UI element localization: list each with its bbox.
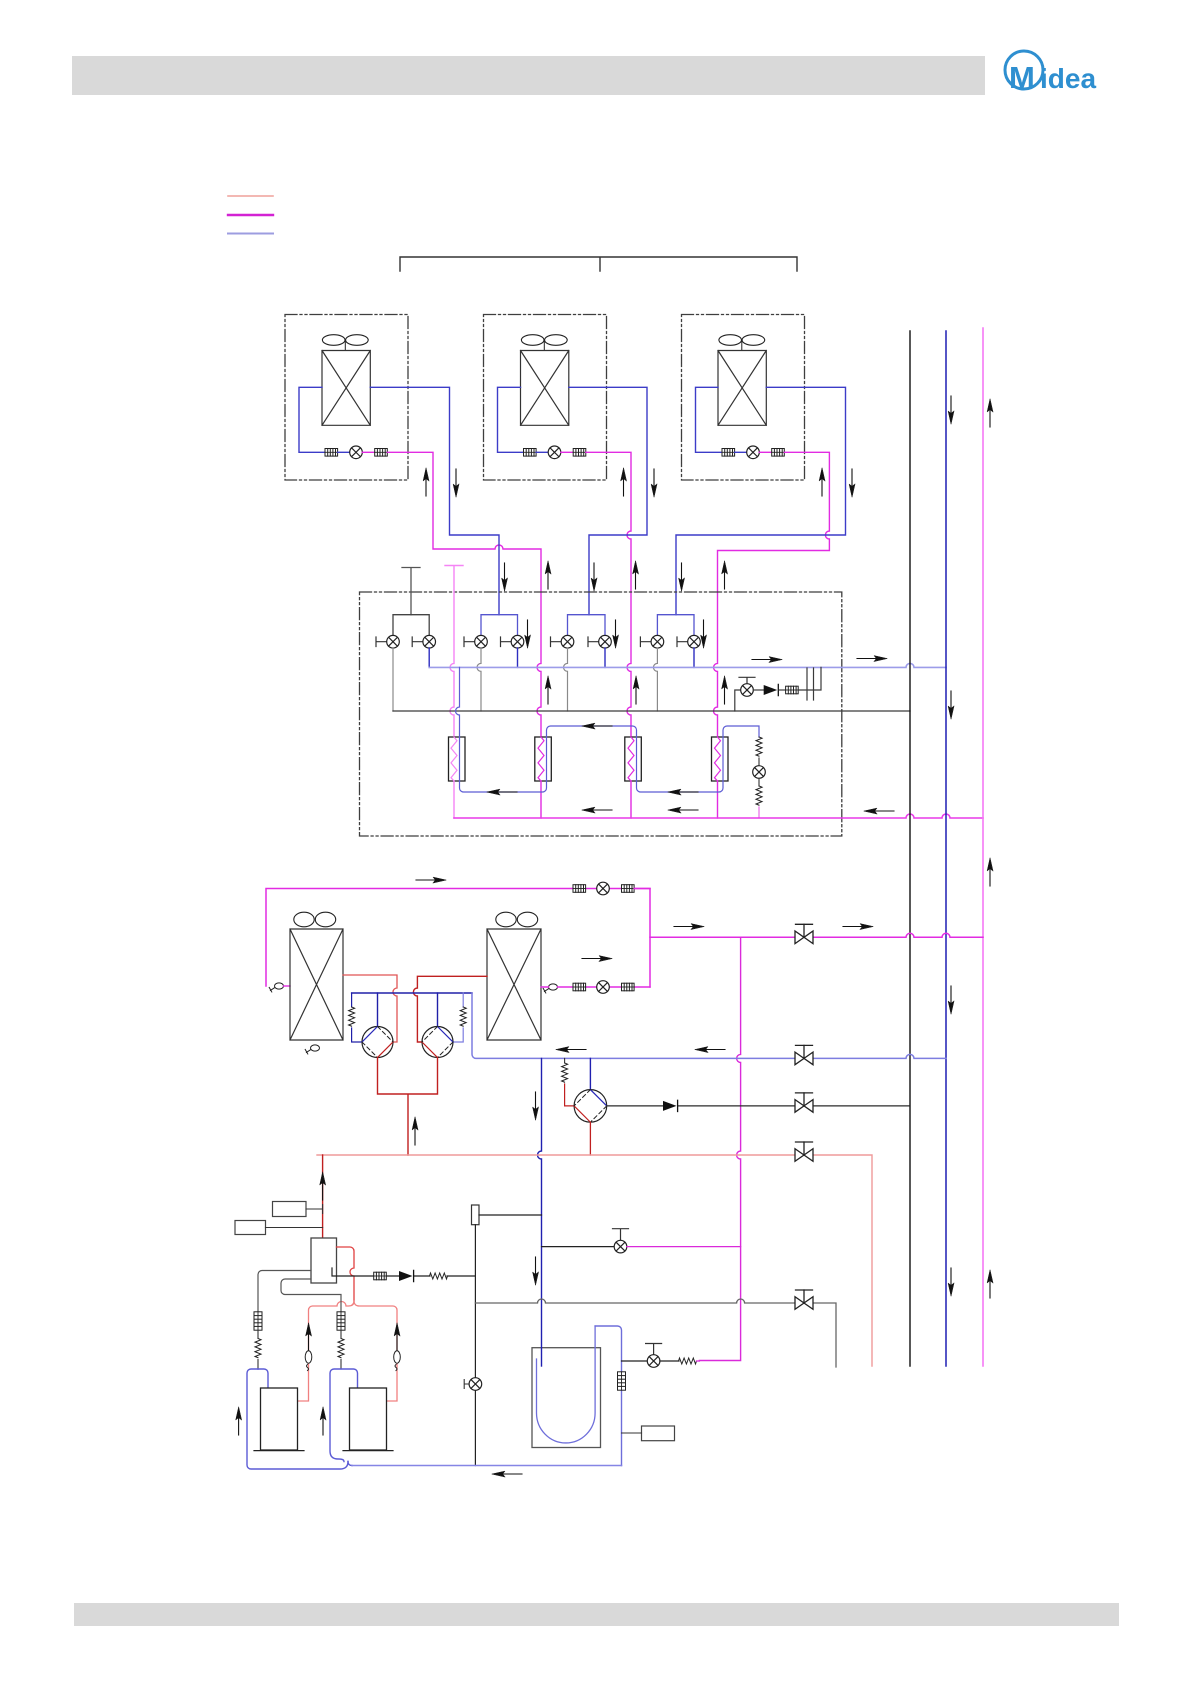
legend line: high pressure liquid (red) (228, 195, 273, 197)
pair1 left solenoid valve (387, 635, 400, 648)
pair3 right drop (blue) (604, 648, 606, 667)
pair4 left solenoid valve (651, 635, 664, 648)
injection coil (679, 1358, 697, 1364)
unit3 fan stem (741, 341, 743, 351)
unit3 arrows (819, 468, 825, 496)
crankcase line A (gray) (258, 1271, 311, 1312)
comp1 suction drop (377, 993, 379, 1027)
subcooler EXV (753, 766, 766, 779)
HR-B line filter A (573, 983, 586, 991)
branch arrows (674, 924, 704, 930)
subcool outlet HX4 to EXV drop (723, 726, 759, 737)
pair2 down arrow (525, 620, 531, 648)
pair2 right solenoid valve (511, 635, 524, 648)
pair3 down arrow (613, 620, 619, 648)
unit3 heat exchanger (718, 351, 766, 426)
accumulator feed drop (blue) (538, 1058, 542, 1366)
unit2 fan right (545, 335, 568, 346)
valve pair 1 header U (393, 615, 429, 636)
unit3 fan right (742, 335, 765, 346)
balance pipe solenoid valve (469, 1378, 482, 1391)
unit1 fan left (322, 335, 345, 346)
coil on drop A (257, 1330, 259, 1338)
pair1 right solenoid valve (423, 635, 436, 648)
HX3 liquid drop (630, 781, 632, 818)
return arrow (492, 1471, 522, 1477)
accumulator inlet drop (blue, into shell) (541, 1348, 543, 1366)
sight glass 2 (394, 1351, 401, 1371)
subcool EXV coil lower (756, 786, 762, 805)
coil on drop B (340, 1330, 342, 1338)
balance pipe valve lead (464, 1380, 469, 1389)
top line filter B (622, 885, 635, 893)
4-way valve (574, 1090, 607, 1123)
wire filter1-EXV (536, 451, 548, 453)
filter on drop B (337, 1312, 345, 1330)
pair1 valve left lead (376, 637, 387, 647)
high-pressure gas line (black) (393, 710, 910, 712)
equalize shut-off valve (795, 1290, 813, 1309)
inter-unit flow arrows (502, 563, 508, 591)
pair4 left drop (gray) (653, 648, 657, 711)
HX1 refrigerant coil (pink) (451, 737, 457, 781)
unit3 filter 1 (722, 449, 735, 457)
wire EXV-filter2 (magenta) (362, 451, 374, 453)
compressor 2 shell loop (blue) (330, 1369, 358, 1462)
unit2 enclosure (484, 315, 607, 481)
low-pressure shut-off valve (795, 1045, 813, 1064)
outlet filter (618, 1372, 626, 1390)
capped stub pipe (gray) (402, 568, 420, 615)
wire valve to coil (660, 1360, 679, 1362)
injection solenoid valve (647, 1355, 660, 1368)
HX1 liquid drop to liquid header (453, 781, 455, 818)
valve pair 3 header U (568, 615, 606, 636)
compressor discharge manifold (red) (378, 1058, 438, 1156)
compressor 2 (422, 1027, 453, 1058)
liquid header (magenta) (454, 814, 983, 818)
magenta riser arrows in box (545, 676, 551, 704)
oil return coil (430, 1273, 448, 1279)
HR-A condensing line (red) (343, 975, 397, 1042)
HR-B line filter B (622, 983, 635, 991)
HR gas shut-off valve (795, 924, 813, 943)
unit1 filter 2 (375, 449, 388, 457)
4-way valve to oil line (red) (589, 1122, 591, 1155)
subcool HX3 shell (625, 737, 642, 781)
sensor capsule on oil balance line (472, 1205, 480, 1225)
valve pair 2 header U (481, 615, 518, 636)
capped stub pipe (pink) (445, 566, 463, 738)
bypass solenoid valve (614, 1240, 627, 1253)
4-way valve suction drop (589, 1058, 591, 1089)
oil separator feed (red) (322, 1155, 324, 1238)
HX2 subcool passage (blue) (546, 737, 548, 781)
compressor shell 1 (261, 1388, 298, 1450)
unit1 heat exchanger (322, 351, 370, 426)
header flow arrows (752, 657, 782, 663)
unit1 gas pipe (blue) (299, 387, 325, 452)
discharge shut-off valve (795, 1093, 813, 1112)
wire filter to header riser (798, 667, 821, 690)
unit3 EXV (747, 446, 760, 459)
unit3 fan left (719, 335, 742, 346)
HX2 refrigerant coil (magenta) (538, 737, 544, 781)
pair2 left solenoid valve (475, 635, 488, 648)
subcool link HX3-HX4 (bottom) (637, 781, 724, 792)
oil return check valve (399, 1270, 414, 1281)
suction return line (blue) (352, 1465, 622, 1467)
service port below HR-A (305, 1045, 319, 1054)
valve pair 4 header U (657, 615, 694, 636)
HX4 subcool passage (blue) (722, 737, 724, 781)
filter on drop A (254, 1312, 262, 1330)
comp2 right branch with coil (462, 993, 464, 1007)
unit1 filter 1 (325, 449, 338, 457)
link arrow (487, 789, 517, 795)
unit3 gas line out (blue) (676, 387, 846, 614)
service port at HR-A inlet (269, 983, 283, 992)
wire valve to check valve (753, 689, 763, 691)
pair2 left drop (gray) (477, 648, 481, 711)
bypass valve cap (613, 1229, 629, 1241)
4-way valve coil branch (564, 1058, 566, 1063)
top bracket over outdoor units (400, 257, 797, 271)
unit2 arrows (621, 468, 627, 496)
comp1 left branch with coil (351, 993, 353, 1007)
wire HR-B to port/filters (magenta) (541, 986, 650, 988)
hot-gas header (salmon) (317, 1155, 872, 1366)
top line filter A (573, 885, 586, 893)
shell arrows (236, 1407, 242, 1435)
compressor 1 (362, 1027, 393, 1058)
HR liquid drop (magenta) (699, 937, 740, 1360)
shell2 base (343, 1450, 393, 1452)
pair2 right valve lead (501, 637, 512, 647)
oil-return filter (786, 686, 799, 694)
accumulator shell (532, 1348, 601, 1448)
HR condenser B (487, 929, 541, 1040)
pair4 right drop (blue) (693, 648, 695, 667)
wire switch1 to pipe (306, 1205, 323, 1214)
accumulator outlet pipe (blue) (595, 1326, 621, 1466)
header gray bar (72, 56, 985, 95)
oil/gas equalize line (gray) (475, 1299, 836, 1367)
shell1 base (254, 1450, 304, 1452)
main high-pressure pipe (black) (909, 331, 911, 1366)
HX1 subcool passage (blue) (459, 737, 461, 781)
oil-return solenoid valve (741, 684, 754, 697)
sight glass 1 (305, 1351, 312, 1371)
oil line arrows (306, 1323, 312, 1351)
wire filter1-EXV (735, 451, 747, 453)
pair4 valve left lead (640, 637, 651, 647)
pair1 right drop (blue) (428, 648, 430, 667)
wire port to HR-A coil (284, 985, 291, 987)
unit2 fan left (521, 335, 544, 346)
HX4 liquid drop (717, 781, 719, 818)
unit2 filter 1 (524, 449, 537, 457)
Midea logo (1005, 51, 1096, 95)
pair3 left solenoid valve (561, 635, 574, 648)
oil-return stub to valve (735, 690, 741, 711)
comp2 suction drop (437, 993, 439, 1027)
oil balance pipe (black) (474, 1225, 476, 1466)
subcool HX2 shell (535, 737, 552, 781)
unit2 gas line out (blue) (569, 387, 647, 614)
HX3 subcool passage (blue) (636, 737, 638, 781)
HX3 refrigerant coil (magenta) (628, 737, 634, 781)
unit2 heat exchanger (521, 351, 569, 426)
legend line: high pressure gas (magenta) (228, 214, 273, 216)
subcool branch from header to HX1 (456, 667, 460, 737)
oil-return check valve (764, 684, 779, 695)
unit2 liquid line out (magenta) (586, 452, 631, 737)
oil-return valve cap (739, 677, 755, 683)
brazed joint marks (807, 668, 814, 700)
feed arrow (320, 1172, 326, 1200)
wire switch2 to pipe (266, 1227, 323, 1229)
unit3 liquid line out (magenta) (714, 452, 830, 737)
HR-A fan right (315, 912, 335, 927)
pink main arrows (987, 399, 993, 427)
hot-gas shut-off valve (795, 1142, 813, 1161)
oil return line (black) (332, 1268, 475, 1276)
top line solenoid valve (597, 882, 610, 895)
main suction pipe (blue) (945, 331, 947, 1366)
wire coil to HR liquid drop (magenta) (697, 1360, 700, 1362)
wire coil to liquid header (758, 807, 760, 818)
subcool link HX2-HX3 (top) (547, 726, 637, 737)
HR line arrows (582, 956, 612, 962)
comp1 loop right arm (258, 1369, 268, 1388)
oil separator (311, 1238, 337, 1283)
suction header drop and low-pressure line (blue) (472, 993, 946, 1058)
crankcase line B (gray) (281, 1279, 341, 1312)
wire filter1-EXV (338, 451, 350, 453)
subcool HX4 shell (712, 737, 729, 781)
accumulator U-tube (blue) (537, 1326, 596, 1443)
HR-B condensing line (red) (413, 976, 487, 1042)
unit2 EXV (548, 446, 561, 459)
unit2 gas pipe (blue) (498, 387, 524, 452)
HR-A fan left (294, 912, 314, 927)
link arrow (582, 723, 612, 729)
wire sensor to outlet pipe (622, 1432, 642, 1434)
top line arrow (416, 877, 446, 883)
pressure switch 1 (273, 1202, 307, 1217)
4-way valve discharge to main (black) (607, 1105, 909, 1107)
pair3 right solenoid valve (599, 635, 612, 648)
suction gas header (light blue) (429, 663, 946, 667)
HR discharge top line (magenta) (266, 889, 650, 988)
wire EXV-filter2 (magenta) (561, 451, 573, 453)
mode box enclosure (360, 592, 842, 836)
liquid bypass to EXV (black/magenta) (542, 1246, 615, 1248)
compressor 1 shell loop (blue) (247, 1369, 348, 1469)
pair4 down arrow (701, 620, 707, 648)
svg-text:M: M (1009, 60, 1035, 95)
unit1 arrows (423, 468, 429, 496)
pair1 right valve lead (412, 637, 423, 647)
oil separator outlet (red) (337, 1247, 355, 1301)
HX2 liquid drop (540, 781, 542, 818)
wire EXV-filter2 (magenta) (759, 451, 771, 453)
oil return filter (374, 1272, 387, 1280)
bypass outlet (magenta) (627, 1246, 741, 1248)
HR-B fan left (496, 912, 516, 927)
service port at HR-B outlet (543, 984, 557, 993)
unit2 fan stem (543, 341, 545, 351)
legend line: low pressure gas (blue) (228, 233, 273, 235)
low-pressure line arrows (556, 1047, 586, 1053)
unit1 EXV (350, 446, 363, 459)
wire EXV to coil (758, 778, 760, 786)
link arrow (668, 789, 698, 795)
pair2 valve left lead (464, 637, 475, 647)
wire capsule to accumulator drop (479, 1214, 542, 1216)
unit3 gas pipe (blue) (696, 387, 723, 452)
svg-text:idea: idea (1040, 63, 1096, 94)
HR condenser A (290, 929, 343, 1040)
unit1 enclosure (285, 315, 408, 481)
HX4 refrigerant coil (magenta) (715, 737, 721, 781)
HR gas branch to shut-off valve (magenta) (650, 933, 983, 937)
main liquid pipe (pink) (982, 328, 984, 1366)
unit3 filter 2 (772, 449, 785, 457)
subcool EXV coil upper (756, 737, 762, 756)
subcool HX1 shell (449, 737, 466, 781)
pair4 right valve lead (677, 637, 688, 647)
discharge arrow (412, 1117, 418, 1145)
injection valve cap (646, 1344, 662, 1355)
liquid header arrows (582, 807, 612, 813)
wire coil to EXV (758, 758, 760, 766)
liquid injection branch (black to magenta) (622, 1360, 648, 1362)
feed drop arrows (533, 1092, 539, 1120)
oil distribution line (red) (298, 1301, 398, 1401)
HR-B line solenoid valve (597, 981, 610, 994)
unit2 filter 2 (573, 449, 586, 457)
pigtail junction (348, 1462, 352, 1466)
oil level sensor (642, 1426, 675, 1441)
pair3 left drop (gray) (564, 648, 568, 711)
discharge check valve (663, 1100, 678, 1111)
unit3 enclosure (682, 315, 805, 481)
unit1 fan stem (344, 341, 346, 351)
unit1 gas line out (blue) (370, 387, 499, 614)
unit1 fan right (346, 335, 369, 346)
pair2 right drop (blue) (517, 648, 519, 667)
wire check valve to filter (779, 689, 785, 691)
pair1 left drop (gray) (392, 648, 394, 711)
footer gray bar (74, 1603, 1119, 1626)
blue main arrows (948, 396, 954, 424)
pair3 valve left lead (551, 637, 562, 647)
pressure switch 2 (235, 1221, 266, 1235)
subcool link HX1-HX2 (bottom) (460, 781, 547, 792)
compressor shell 2 (350, 1388, 387, 1450)
unit1 liquid line out (magenta) (387, 452, 541, 737)
pair4 right solenoid valve (688, 635, 701, 648)
HR-B fan right (517, 912, 537, 927)
pair3 right valve lead (588, 637, 599, 647)
compressor suction header (dark blue) (352, 992, 472, 994)
wire filters to riser (634, 888, 650, 890)
